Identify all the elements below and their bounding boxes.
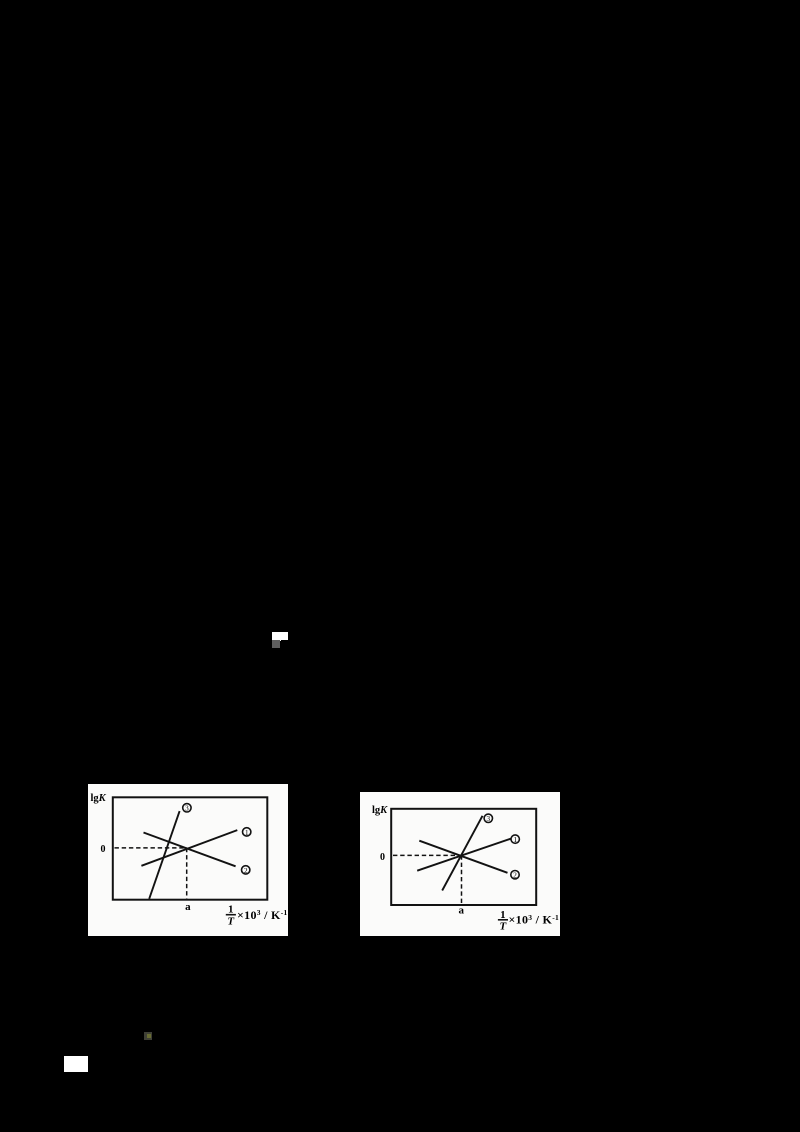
svg-text:1: 1 — [245, 828, 249, 837]
svg-text:a: a — [185, 901, 191, 913]
small gray square under white mark — [272, 640, 280, 648]
label circle 2 — [242, 866, 250, 874]
line 2 falling — [419, 841, 507, 873]
line 1 rising — [417, 839, 511, 871]
axis frame — [391, 809, 536, 905]
dashed vertical line — [461, 855, 463, 903]
line 3 steep — [149, 811, 179, 899]
small white mark above figures — [272, 632, 288, 640]
white rectangle bottom-left — [64, 1056, 88, 1072]
svg-text:×103 / K-1: ×103 / K-1 — [509, 913, 560, 927]
svg-text:1: 1 — [513, 835, 517, 844]
dashed horizontal line — [115, 847, 187, 849]
dashed horizontal line — [393, 854, 462, 856]
svg-text:a: a — [459, 905, 465, 917]
label circle 1 — [243, 828, 251, 836]
figure 2 white panel — [360, 792, 560, 936]
svg-text:1: 1 — [228, 904, 234, 916]
svg-text:×103 / K-1: ×103 / K-1 — [237, 908, 288, 922]
svg-text:T: T — [500, 920, 508, 932]
svg-text:2: 2 — [513, 871, 517, 880]
axis frame — [113, 797, 267, 899]
line 3 steep — [442, 816, 482, 891]
svg-text:2: 2 — [244, 866, 248, 875]
line 2 falling — [144, 833, 236, 867]
label circle 2 — [511, 871, 519, 879]
svg-text:3: 3 — [486, 814, 490, 823]
svg-text:T: T — [227, 915, 235, 927]
svg-text:lgK: lgK — [91, 793, 107, 804]
figure 1 white panel — [88, 784, 288, 936]
svg-text:0: 0 — [101, 844, 106, 855]
svg-text:0: 0 — [380, 852, 385, 863]
small white notch — [278, 640, 281, 641]
svg-text:lgK: lgK — [372, 805, 388, 816]
line 1 rising — [141, 830, 237, 866]
dashed vertical line — [186, 848, 188, 899]
dark olive square bottom-left area — [144, 1032, 152, 1040]
label circle 1 — [511, 835, 519, 843]
label circle 3 — [183, 804, 191, 812]
svg-text:3: 3 — [185, 804, 189, 813]
label circle 3 — [484, 814, 492, 822]
